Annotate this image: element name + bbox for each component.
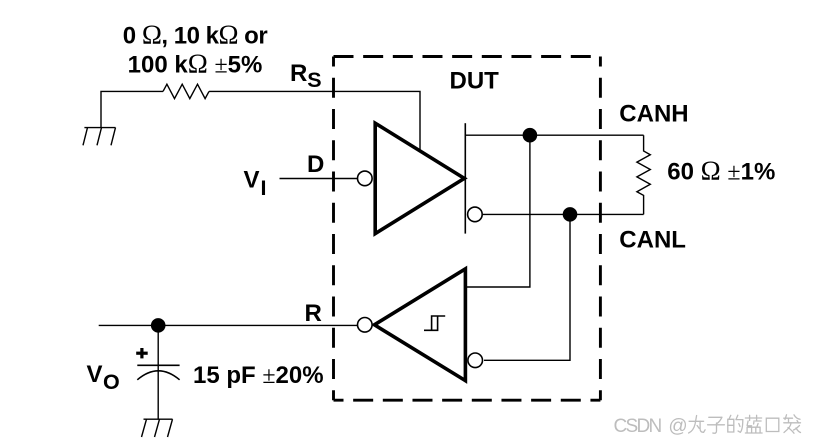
driver output bar (464, 123, 466, 233)
wire CANH to receiver input (465, 135, 530, 287)
ground (bottom-left) (142, 419, 173, 437)
wire resistor RS to DUT driver (209, 91, 420, 149)
node RS label (290, 60, 322, 92)
svg-text:V: V (87, 361, 103, 388)
wire VO to receiver output R (99, 324, 357, 326)
svg-text:CSDN @: CSDN @ (614, 416, 687, 437)
zi (708, 417, 725, 433)
wire ground to resistor RS (101, 91, 163, 127)
svg-text:DUT: DUT (450, 68, 500, 95)
svg-text:R: R (290, 60, 307, 87)
wire CANH (465, 134, 643, 136)
watermark CJK glyphs (hand drawn) (689, 415, 801, 433)
receiver input bubble (358, 318, 373, 333)
svg-text:V: V (244, 167, 260, 194)
kou (766, 418, 779, 431)
driver input bubble (358, 171, 373, 186)
resistor RL 60 ohm (637, 135, 650, 214)
svg-text:CANH: CANH (619, 101, 688, 128)
resistor RS (163, 84, 209, 98)
dai (784, 415, 801, 433)
resistor RS value label (123, 20, 268, 79)
dashed box DUT (334, 57, 601, 401)
capacitor C plus sign (136, 348, 148, 358)
svg-text:0 Ω, 10 kΩ or: 0 Ω, 10 kΩ or (123, 20, 268, 50)
capacitor C (15 pF) (137, 365, 179, 380)
receiver output bubble (468, 353, 483, 368)
lan (745, 415, 762, 433)
wire VI to driver input (280, 178, 358, 180)
svg-text:I: I (261, 176, 267, 200)
wire junction to capacitor (157, 325, 159, 419)
svg-text:O: O (103, 370, 120, 394)
svg-text:S: S (307, 68, 321, 92)
node CANH junction (523, 128, 538, 143)
node VO junction (151, 318, 166, 333)
de (728, 415, 743, 432)
svg-text:15 pF ±20%: 15 pF ±20% (193, 362, 324, 389)
driver inverting output bubble (468, 207, 483, 222)
node CANL junction (563, 207, 578, 222)
svg-text:100 kΩ ±5%: 100 kΩ ±5% (128, 49, 263, 79)
node VO label (87, 361, 120, 394)
svg-text:D: D (307, 151, 324, 178)
node VI label (244, 167, 267, 201)
hysteresis symbol (424, 316, 445, 330)
ground (top-left) (83, 128, 116, 146)
op-amp receiver triangle (374, 269, 465, 381)
svg-text:CANL: CANL (619, 226, 686, 253)
svg-text:R: R (305, 300, 322, 327)
wire CANL to receiver output bubble (484, 214, 570, 360)
wan (689, 416, 706, 434)
svg-text:60 Ω ±1%: 60 Ω ±1% (667, 156, 775, 186)
op-amp driver triangle (375, 123, 464, 233)
wire CANL (483, 213, 644, 215)
